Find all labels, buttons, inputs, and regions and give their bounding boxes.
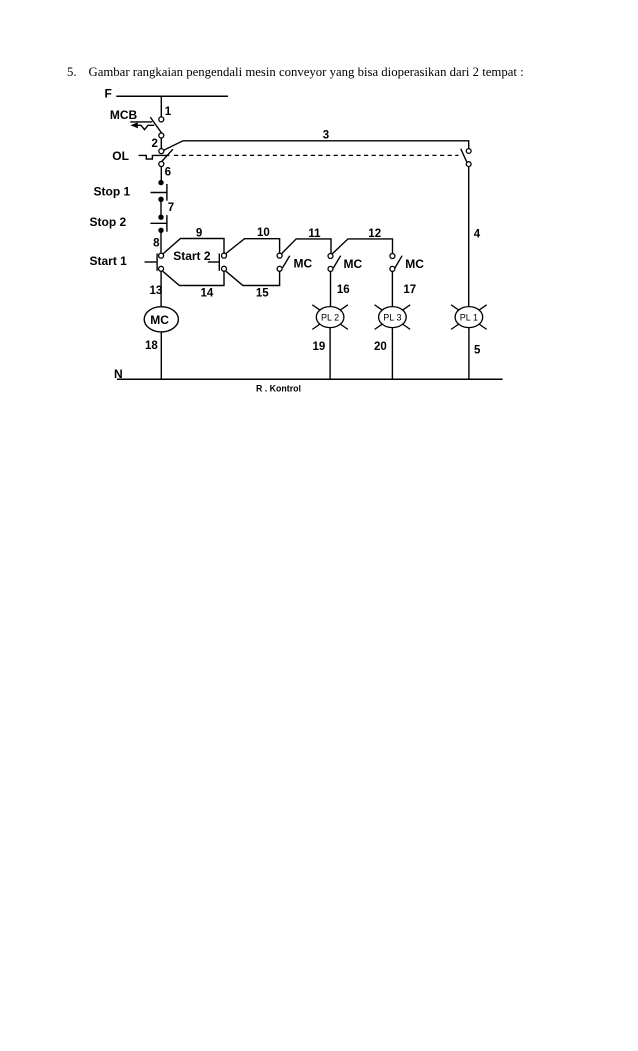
- svg-text:20: 20: [374, 341, 387, 353]
- node 9 label: [196, 228, 202, 240]
- wire 16: [330, 271, 332, 307]
- svg-text:Start 2: Start 2: [173, 249, 211, 263]
- pushbutton Stop 2: [150, 215, 167, 234]
- wire 18: [160, 332, 162, 379]
- breaker MCB: [130, 117, 164, 138]
- node 2 label: [152, 138, 158, 150]
- svg-text:Stop 1: Stop 1: [94, 184, 131, 198]
- wire F phase line: [116, 95, 228, 97]
- wire 6: [160, 167, 162, 181]
- svg-text:18: 18: [145, 340, 158, 352]
- svg-text:7: 7: [168, 202, 174, 214]
- node 13 label: [150, 285, 163, 297]
- node 14 label: [201, 288, 214, 300]
- node 3 label: [323, 130, 329, 142]
- lamp PL3: [375, 305, 411, 330]
- contact MC aux 3: [390, 254, 402, 272]
- wire 17: [391, 271, 393, 307]
- node 10 label: [257, 227, 270, 239]
- node 17 label: [403, 284, 416, 296]
- node 6 label: [165, 167, 171, 179]
- svg-text:1: 1: [165, 106, 172, 118]
- svg-text:MC: MC: [294, 257, 313, 271]
- wire 10: [226, 239, 280, 254]
- node N label: [114, 367, 123, 381]
- wire 7: [160, 199, 162, 217]
- node 16 label: [337, 284, 350, 296]
- wire 8: [160, 230, 162, 253]
- node R Kontrol label: [256, 383, 301, 393]
- svg-text:2: 2: [152, 138, 158, 150]
- svg-text:PL 2: PL 2: [321, 312, 339, 322]
- pushbutton Stop 2 label: [90, 215, 127, 229]
- contact MC aux 1: [277, 253, 290, 271]
- node 4 label: [474, 229, 481, 241]
- svg-text:3: 3: [323, 130, 329, 142]
- pushbutton Start 1 label: [90, 254, 128, 268]
- svg-text:PL 1: PL 1: [460, 312, 478, 322]
- svg-text:10: 10: [257, 227, 270, 239]
- node F label: [105, 86, 112, 100]
- pushbutton Stop 1: [151, 180, 167, 202]
- wire 12: [332, 239, 392, 254]
- contact MC aux 2 label: [344, 257, 363, 271]
- overload OL contact: [159, 149, 173, 167]
- node 20 label: [374, 341, 387, 353]
- svg-text:5: 5: [474, 345, 481, 357]
- wire 3: [164, 141, 469, 150]
- svg-text:6: 6: [165, 167, 171, 179]
- node 11 label: [308, 228, 321, 240]
- svg-text:OL: OL: [112, 149, 129, 163]
- svg-text:19: 19: [313, 341, 326, 353]
- svg-text:4: 4: [474, 229, 481, 241]
- node 1 label: [165, 106, 172, 118]
- lamp PL2: [312, 305, 348, 330]
- svg-text:8: 8: [153, 238, 160, 250]
- contact MC aux 1 label: [294, 257, 313, 271]
- wire 4: [468, 167, 470, 307]
- svg-text:MC: MC: [344, 257, 363, 271]
- svg-text:11: 11: [308, 228, 321, 240]
- node 18 label: [145, 340, 158, 352]
- svg-text:Start 1: Start 1: [90, 254, 128, 268]
- coil MC: [144, 307, 178, 332]
- node 7 label: [168, 202, 174, 214]
- pushbutton Stop 1 label: [94, 184, 131, 198]
- wire 13 coil feed: [160, 271, 162, 307]
- svg-text:14: 14: [201, 288, 214, 300]
- node 15 label: [256, 288, 269, 300]
- node 8 label: [153, 238, 160, 250]
- node 12 label: [368, 228, 381, 240]
- pushbutton Start 1: [145, 253, 164, 271]
- svg-text:12: 12: [368, 228, 381, 240]
- svg-text:9: 9: [196, 228, 202, 240]
- overload OL heater symbol: [139, 155, 170, 159]
- wire 19: [329, 328, 331, 380]
- pushbutton Start 2 label: [173, 249, 211, 263]
- svg-text:15: 15: [256, 288, 269, 300]
- wire N neutral line: [117, 378, 503, 380]
- svg-text:R . Kontrol: R . Kontrol: [256, 383, 301, 393]
- wire 5: [468, 328, 470, 380]
- svg-text:PL 3: PL 3: [383, 312, 401, 322]
- lamp PL1: [451, 305, 487, 330]
- wire 1: [160, 96, 162, 117]
- svg-text:17: 17: [403, 284, 416, 296]
- wire 15: [226, 271, 280, 285]
- svg-text:MC: MC: [150, 313, 169, 327]
- contact MC aux 2: [328, 254, 341, 272]
- svg-text:16: 16: [337, 284, 350, 296]
- wire 2: [160, 138, 162, 149]
- contact OL trip right: [461, 149, 471, 167]
- wire 11: [282, 239, 332, 254]
- node 19 label: [313, 341, 326, 353]
- svg-text:Stop 2: Stop 2: [90, 215, 127, 229]
- svg-text:MCB: MCB: [110, 108, 138, 122]
- overload OL label: [112, 149, 129, 163]
- pushbutton Start 2: [208, 253, 227, 271]
- wire 14: [163, 271, 224, 285]
- svg-text:MC: MC: [405, 257, 424, 271]
- breaker MCB label: [110, 108, 138, 122]
- dashed mechanical link: [174, 154, 459, 156]
- wire 9: [163, 239, 224, 254]
- svg-text:13: 13: [150, 285, 163, 297]
- node 5 label: [474, 345, 481, 357]
- svg-text:F: F: [105, 86, 112, 100]
- contact MC aux 3 label: [405, 257, 424, 271]
- wire 20: [391, 328, 393, 380]
